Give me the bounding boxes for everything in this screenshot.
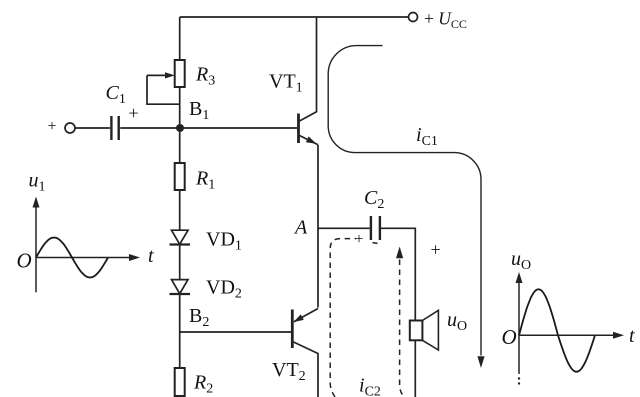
svg-text:O: O — [17, 249, 32, 273]
svg-text:+: + — [129, 103, 139, 123]
svg-text:t: t — [629, 325, 635, 347]
svg-text:A: A — [293, 217, 308, 239]
svg-text:+: + — [48, 118, 57, 135]
svg-text:+: + — [431, 240, 441, 260]
svg-text:t: t — [148, 245, 154, 267]
svg-text:O: O — [502, 325, 517, 349]
svg-text:+: + — [355, 231, 364, 248]
